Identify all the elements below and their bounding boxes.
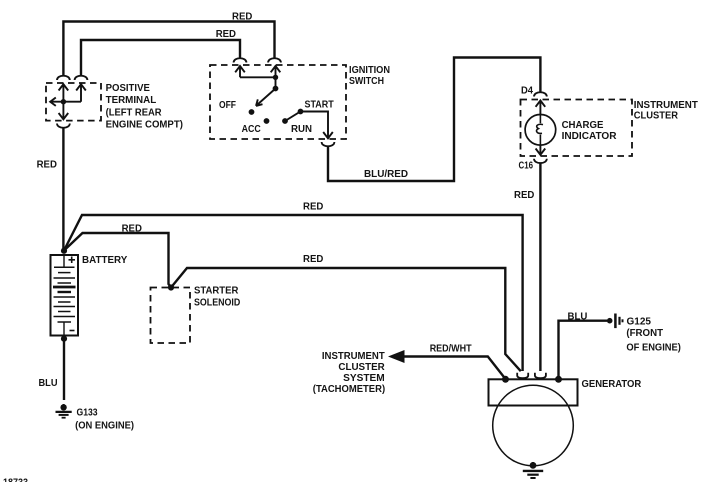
wire BLU: generator E terminal to ground G125 [559,321,608,379]
svg-text:G133: G133 [77,408,98,419]
wire RED: positive terminal to ignition switch right terminal [63,22,274,76]
svg-text:BLU: BLU [39,378,58,389]
connector socket D4 above instrument cluster [534,92,547,96]
connector socket below ignition switch [322,142,335,146]
svg-text:D4: D4 [521,85,533,96]
terminal pin arrow up (right) inside positive terminal [76,84,86,102]
svg-text:GENERATOR: GENERATOR [582,379,642,390]
starter solenoid dashed box [151,288,191,344]
battery bottom junction dot [61,336,67,342]
generator terminal socket 1 [517,373,528,378]
svg-text:(TACHOMETER): (TACHOMETER) [313,384,385,395]
generator left terminal junction dot [502,376,509,383]
wire BLU: battery negative to ground G133 [63,339,65,401]
svg-text:RUN: RUN [291,124,312,135]
svg-text:RED: RED [303,202,323,213]
ground G133 [56,404,72,418]
RUN contact dot [282,118,288,124]
svg-text:(FRONT: (FRONT [626,328,663,339]
wire RED: positive terminal to battery positive post [62,128,64,250]
svg-text:INDICATOR: INDICATOR [562,131,618,142]
arrow down at ignition START output [323,131,333,138]
battery internal bottom stub [63,322,65,336]
wire RED: starter solenoid to generator B+ (lower) [171,268,521,371]
wire RED: positive terminal to ignition switch left terminal [81,40,240,75]
svg-text:OF ENGINE): OF ENGINE) [626,342,681,353]
battery plates [53,267,76,322]
svg-text:STARTER: STARTER [194,286,239,297]
svg-text:START: START [305,100,335,111]
svg-text:RED: RED [303,254,323,265]
battery case [51,255,79,336]
svg-text:RED: RED [232,11,252,22]
ignition switch rotor arm with arrowhead toward OFF [256,89,276,106]
ignition bus junction dot [273,75,278,80]
connector socket C16 below instrument cluster [534,159,547,163]
connector socket at ignition switch terminal B1 [234,58,247,62]
ignition rotor pivot dot [273,86,279,92]
svg-text:(ON ENGINE): (ON ENGINE) [75,420,134,431]
connector socket at positive terminal, wire 2 [75,76,88,80]
svg-text:INSTRUMENT: INSTRUMENT [634,100,699,111]
OFF contact dot [249,109,255,115]
wire BLU/RED: ignition switch START output to charge indicator D4 [328,58,540,182]
svg-text:RED/WHT: RED/WHT [430,344,473,355]
generator housing rectangle [489,379,578,405]
arrow left inside positive terminal [50,98,63,106]
svg-text:RED: RED [216,29,236,40]
battery - symbol [70,330,75,332]
svg-text:C16: C16 [519,161,534,172]
wire RED: battery to long feed toward generator B+ (upper) [64,215,523,371]
ground G125 [607,314,623,329]
junction dot inside positive terminal [61,99,66,104]
pin arrow up at D4 inside cluster [536,101,546,115]
generator right terminal junction dot [555,376,562,383]
svg-text:CLUSTER: CLUSTER [634,110,679,121]
wire RED: charge indicator C16 down to generator L terminal [539,163,541,371]
arrowhead RED/WHT to instrument cluster system [388,350,405,363]
svg-text:INSTRUMENT: INSTRUMENT [322,351,386,362]
battery top junction dot [61,248,67,254]
svg-text:BLU/RED: BLU/RED [364,169,408,180]
generator case ground [523,462,543,478]
svg-text:CLUSTER: CLUSTER [338,362,385,373]
pin arrow up right inside ignition switch [271,66,281,77]
ACC contact dot [264,118,270,124]
generator terminal socket 2 [535,373,546,378]
svg-text:IGNITION: IGNITION [349,65,390,76]
battery internal top stub [63,255,65,267]
START contact dot [298,109,304,115]
svg-text:ENGINE COMPT): ENGINE COMPT) [106,120,183,131]
starter solenoid junction dot [168,284,174,290]
positive terminal dashed box [46,83,101,121]
svg-text:POSITIVE: POSITIVE [106,83,150,94]
connector socket at ignition switch terminal B2 [268,58,281,62]
svg-text:RED: RED [37,160,57,171]
charge indicator bulb filament [539,115,541,124]
wire RED/WHT: generator to instrument cluster system (tachometer) [403,357,506,380]
svg-text:BLU: BLU [568,311,588,322]
svg-text:OFF: OFF [219,100,236,111]
junction bus inside positive terminal [63,101,81,103]
svg-text:(LEFT REAR: (LEFT REAR [106,107,163,118]
svg-text:SYSTEM: SYSTEM [343,373,385,384]
connector socket below positive terminal [57,124,70,128]
svg-text:ACC: ACC [242,124,262,135]
svg-text:CHARGE: CHARGE [562,120,604,131]
generator body circle [493,385,574,466]
ignition internal bus wire [240,77,276,88]
svg-text:RED: RED [514,190,534,201]
battery + symbol [69,257,76,264]
svg-text:18733: 18733 [3,478,28,482]
svg-text:G125: G125 [627,317,652,328]
terminal pin arrow up (left) inside positive terminal [59,84,69,102]
charge indicator bulb [525,115,556,146]
svg-text:SOLENOID: SOLENOID [194,298,240,309]
pin arrow up left inside ignition switch [235,66,245,77]
instrument cluster dashed box [521,100,633,157]
arrow down at C16 inside cluster [536,145,546,155]
svg-text:BATTERY: BATTERY [82,255,127,266]
svg-text:TERMINAL: TERMINAL [106,95,157,106]
connector socket at positive terminal, wire 1 [57,76,70,80]
arrow down inside positive terminal [59,102,69,120]
svg-text:SWITCH: SWITCH [349,76,384,87]
link RUN to START and START output wire [285,112,328,132]
svg-text:RED: RED [122,224,142,235]
ignition switch dashed box [210,65,346,139]
wire RED: battery to starter solenoid [64,233,171,288]
